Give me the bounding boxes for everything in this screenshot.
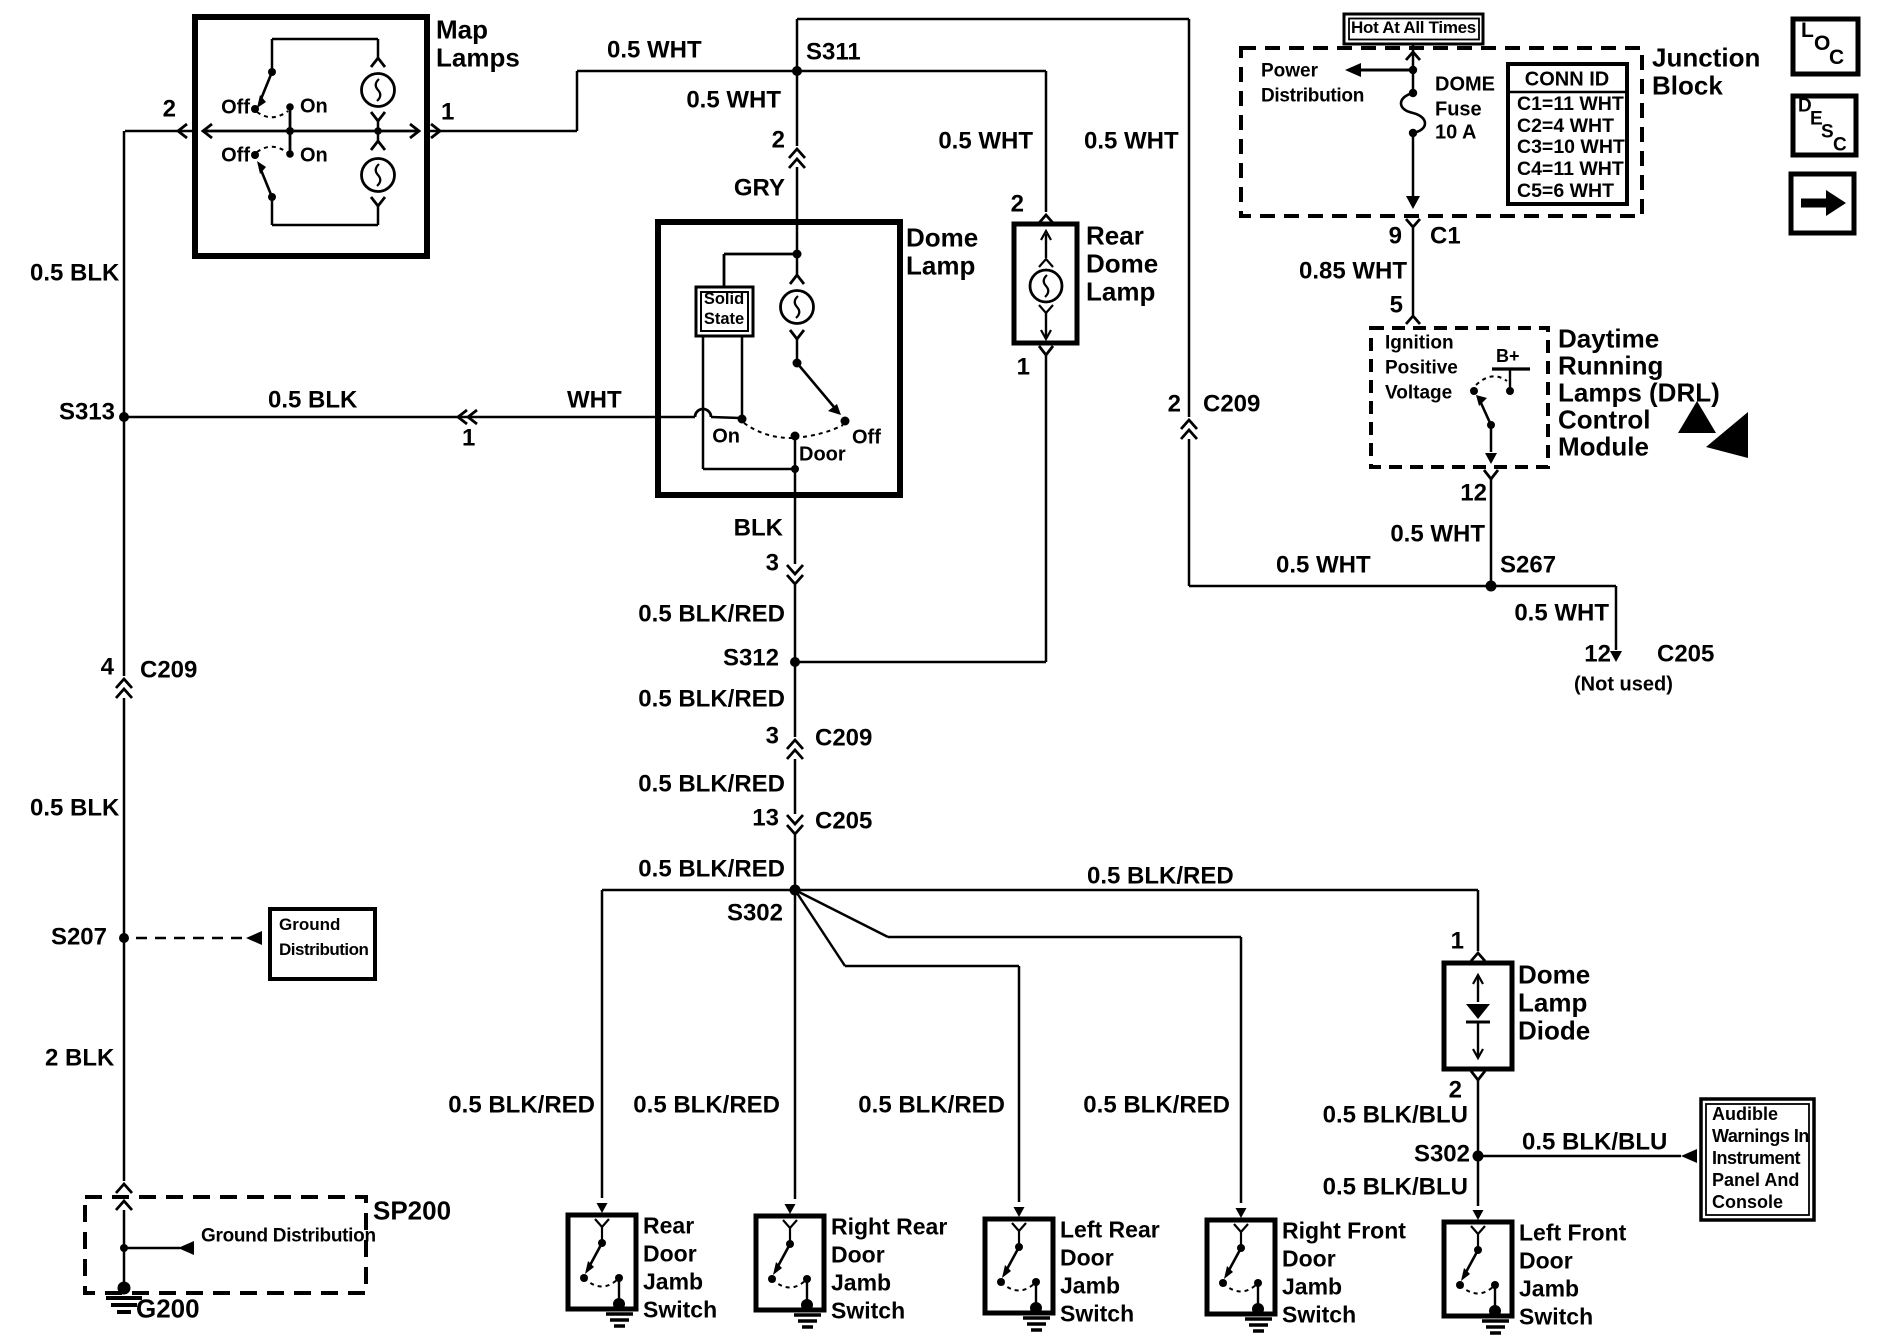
rear dome lamp box xyxy=(1014,224,1077,343)
Right Rear Door Jamb Switch left contact xyxy=(768,1275,776,1283)
svg-text:Door: Door xyxy=(831,1242,885,1268)
svg-text:Warnings In: Warnings In xyxy=(1712,1126,1809,1146)
svg-text:0.5 BLK: 0.5 BLK xyxy=(268,386,358,413)
svg-text:Junction: Junction xyxy=(1652,43,1760,73)
svg-text:0.5 BLK/RED: 0.5 BLK/RED xyxy=(858,1091,1005,1118)
svg-text:Instrument: Instrument xyxy=(1712,1148,1801,1168)
Left Rear Door Jamb Switch dashed throw arc xyxy=(1001,1282,1036,1291)
Right Front Door Jamb Switch left contact xyxy=(1219,1279,1227,1287)
connector pin 3 chevrons (down) xyxy=(787,565,803,574)
Left Rear Door Jamb Switch right contact xyxy=(1032,1278,1040,1286)
power distribution arrow xyxy=(1361,69,1413,72)
svg-text:Audible: Audible xyxy=(1712,1104,1778,1124)
svg-text:L: L xyxy=(1801,19,1814,42)
svg-text:(Not used): (Not used) xyxy=(1574,673,1673,695)
left-rear-door-jamb-switch-entry arrow xyxy=(1014,1207,1025,1217)
dome lamp internal bottom wire xyxy=(703,468,795,471)
solid state box xyxy=(696,287,753,336)
svg-text:On: On xyxy=(300,144,328,166)
Right Rear Door Jamb Switch switch pivot xyxy=(786,1240,794,1248)
wire S302 to audible warnings xyxy=(1478,1155,1681,1158)
Rear Door Jamb Switch right contact xyxy=(615,1274,623,1282)
dome lamp internal node xyxy=(793,250,802,259)
Left Front Door Jamb Switch box xyxy=(1444,1222,1512,1316)
ground distribution box xyxy=(270,909,375,979)
Left Front Door Jamb Switch dashed throw arc xyxy=(1460,1285,1495,1294)
svg-text:2: 2 xyxy=(163,95,176,122)
dome lamp bottom node xyxy=(791,465,799,473)
right-front-door-jamb-switch-entry arrow xyxy=(1236,1208,1247,1218)
svg-text:Hot At All Times: Hot At All Times xyxy=(1351,18,1476,37)
wire 0.5 BLK/RED (to S302) xyxy=(794,835,797,890)
svg-text:C5=6 WHT: C5=6 WHT xyxy=(1517,180,1614,202)
svg-text:C209: C209 xyxy=(1203,390,1260,417)
map lamps lower Off contact xyxy=(251,151,259,159)
svg-text:Right Front: Right Front xyxy=(1282,1218,1406,1244)
svg-text:Dome: Dome xyxy=(1518,960,1590,990)
svg-text:Lamps (DRL): Lamps (DRL) xyxy=(1558,378,1720,408)
svg-text:CONN ID: CONN ID xyxy=(1525,68,1609,90)
Right Rear Door Jamb Switch box xyxy=(756,1216,824,1310)
Right Rear Door Jamb Switch contact-to-ground wire xyxy=(806,1279,808,1304)
diode internal arrow down xyxy=(1477,1022,1479,1056)
svg-text:1: 1 xyxy=(1017,353,1030,380)
svg-text:Door: Door xyxy=(1060,1245,1114,1271)
svg-text:3: 3 xyxy=(766,722,779,749)
dome lamp bulb xyxy=(790,275,804,284)
Left Rear Door Jamb Switch ground symbol xyxy=(1030,1302,1042,1314)
rear dome lamp output wire xyxy=(1045,355,1048,662)
svg-text:S313: S313 xyxy=(59,398,115,425)
svg-text:13: 13 xyxy=(752,804,779,831)
Left Rear Door Jamb Switch box xyxy=(985,1219,1053,1313)
map lamps center post xyxy=(289,107,292,154)
svg-text:State: State xyxy=(704,310,744,328)
svg-text:DOME: DOME xyxy=(1435,73,1495,95)
SP200 internal wire xyxy=(123,1210,126,1248)
Rear Door Jamb Switch ground symbol xyxy=(613,1298,625,1310)
svg-text:Door: Door xyxy=(643,1241,697,1267)
wire S267 right to C205 xyxy=(1491,585,1616,588)
svg-text:Door: Door xyxy=(799,443,846,465)
diode internal arrow up xyxy=(1477,977,1479,1002)
DRL dashed arc xyxy=(1476,376,1507,385)
svg-text:Lamp: Lamp xyxy=(906,251,975,281)
svg-text:Ground: Ground xyxy=(279,915,340,934)
solid state left leg wire xyxy=(702,336,705,469)
svg-text:S311: S311 xyxy=(806,38,861,65)
diode terminal 1 xyxy=(1471,953,1485,961)
svg-text:0.5 BLK/BLU: 0.5 BLK/BLU xyxy=(1323,1101,1468,1128)
rear-door-jamb-switch-entry arrow xyxy=(597,1203,608,1213)
svg-text:Left Front: Left Front xyxy=(1519,1220,1627,1246)
dome lamp box xyxy=(658,222,900,495)
svg-text:Switch: Switch xyxy=(1519,1304,1593,1330)
svg-text:0.5 BLK/RED: 0.5 BLK/RED xyxy=(638,770,785,797)
svg-text:Control: Control xyxy=(1558,405,1650,435)
svg-text:C1=11 WHT: C1=11 WHT xyxy=(1517,93,1624,115)
svg-text:On: On xyxy=(300,95,328,117)
svg-text:12: 12 xyxy=(1460,479,1487,506)
right-rear-door-jamb-switch-entry arrow xyxy=(785,1204,796,1214)
svg-text:Module: Module xyxy=(1558,432,1649,462)
Rear Door Jamb Switch dashed throw arc xyxy=(584,1278,619,1287)
svg-text:B+: B+ xyxy=(1496,346,1520,366)
solid state right leg wire xyxy=(741,336,744,419)
Rear Door Jamb Switch left contact xyxy=(580,1274,588,1282)
junction block dashed box xyxy=(1241,48,1642,216)
svg-text:1: 1 xyxy=(462,424,475,451)
connector C1 pin 9 xyxy=(1406,219,1420,227)
svg-text:Power: Power xyxy=(1261,61,1319,82)
svg-text:S312: S312 xyxy=(723,644,779,671)
DOME fuse 10A xyxy=(1412,70,1415,93)
rear dome lamp internal arrow up xyxy=(1045,234,1047,258)
Left Rear Door Jamb Switch switch pivot xyxy=(1015,1243,1023,1251)
map lamps pin 1 wire xyxy=(427,130,577,133)
DRL switch arm xyxy=(1481,403,1491,425)
ground distribution dashed wire xyxy=(136,937,248,940)
node S302 xyxy=(790,885,801,896)
svg-text:0.5 BLK/RED: 0.5 BLK/RED xyxy=(448,1091,595,1118)
Right Front Door Jamb Switch box xyxy=(1207,1220,1275,1314)
svg-text:0.85 WHT: 0.85 WHT xyxy=(1299,257,1407,284)
svg-text:C3=10 WHT: C3=10 WHT xyxy=(1517,136,1625,158)
svg-text:Switch: Switch xyxy=(831,1298,905,1324)
svg-text:Ignition: Ignition xyxy=(1385,333,1454,354)
svg-text:Diode: Diode xyxy=(1518,1016,1590,1046)
Right Rear Door Jamb Switch internal connector chevron xyxy=(783,1220,797,1228)
svg-text:0.5 BLK/RED: 0.5 BLK/RED xyxy=(1083,1091,1230,1118)
Right Rear Door Jamb Switch ground symbol xyxy=(801,1299,813,1311)
dome lamp Door contact xyxy=(791,432,800,441)
svg-text:S302: S302 xyxy=(1414,1140,1470,1167)
svg-text:S: S xyxy=(1821,122,1834,143)
wire WHT from dome switch xyxy=(658,416,695,419)
map lamps upper switch arm xyxy=(261,72,272,99)
wire 0.5 BLK/RED (to S312) xyxy=(794,585,797,662)
fuse output wire xyxy=(1412,133,1415,197)
DESC icon box xyxy=(1793,96,1856,155)
svg-text:Off: Off xyxy=(221,144,250,166)
svg-text:Door: Door xyxy=(1519,1248,1573,1274)
svg-text:Right Rear: Right Rear xyxy=(831,1214,947,1240)
left rail wire lower (2 BLK) xyxy=(123,938,126,1181)
dome lamp Off contact xyxy=(841,417,850,426)
dome lamp diode box xyxy=(1444,963,1512,1069)
map lamps node (lamp junction) xyxy=(374,127,382,135)
wire S311 up and top run xyxy=(796,19,799,71)
SP200 ground distribution arrow xyxy=(124,1247,180,1250)
wire 0.5 BLK/RED (S312 down) xyxy=(794,662,797,737)
svg-text:2: 2 xyxy=(1011,190,1024,217)
map lamp bulb 2 xyxy=(377,131,380,141)
diode symbol xyxy=(1466,1004,1490,1019)
connector C209 pin 4 (left rail) xyxy=(116,679,132,688)
dome lamp switch pivot xyxy=(793,359,802,368)
svg-text:Dome: Dome xyxy=(1086,249,1158,279)
Rear Door Jamb Switch switch arm xyxy=(589,1243,602,1267)
Right Front Door Jamb Switch switch pivot xyxy=(1237,1244,1245,1252)
dome lamp switch arm xyxy=(797,363,834,407)
DRL exit chevron pin 12 xyxy=(1484,470,1498,479)
svg-text:Panel And: Panel And xyxy=(1712,1170,1799,1190)
splice SP200 dashed box xyxy=(85,1197,366,1293)
junction block entry chevron xyxy=(1406,52,1420,60)
svg-text:Switch: Switch xyxy=(643,1297,717,1323)
svg-text:0.5 WHT: 0.5 WHT xyxy=(607,36,702,63)
svg-text:0.5 BLK: 0.5 BLK xyxy=(30,259,120,286)
Left Rear Door Jamb Switch switch arm xyxy=(1006,1247,1019,1271)
svg-text:0.5 BLK/BLU: 0.5 BLK/BLU xyxy=(1323,1173,1468,1200)
Left Front Door Jamb Switch left contact xyxy=(1456,1281,1464,1289)
wire S312 to rear dome lamp xyxy=(795,661,1046,664)
svg-text:O: O xyxy=(1814,32,1830,55)
svg-text:Console: Console xyxy=(1712,1192,1783,1212)
svg-text:Voltage: Voltage xyxy=(1385,383,1452,404)
svg-text:S207: S207 xyxy=(51,923,107,950)
node S312 xyxy=(790,657,800,667)
svg-text:2: 2 xyxy=(1168,390,1181,417)
rear dome lamp bulb xyxy=(1039,259,1053,267)
Right Front Door Jamb Switch switch arm xyxy=(1228,1248,1241,1272)
Left Front Door Jamb Switch ground symbol xyxy=(1489,1305,1501,1317)
svg-text:Jamb: Jamb xyxy=(643,1269,703,1295)
SP200 down wire xyxy=(123,1248,126,1288)
svg-text:Off: Off xyxy=(221,96,250,118)
svg-text:C: C xyxy=(1833,135,1847,156)
svg-text:C205: C205 xyxy=(1657,640,1714,667)
wire S311 right to rear dome lamp xyxy=(797,70,1046,73)
svg-text:0.5 BLK/RED: 0.5 BLK/RED xyxy=(638,600,785,627)
wire S302 diagonal 2 xyxy=(795,890,845,966)
wire 0.5 BLK/RED (C209-C205) xyxy=(794,759,797,814)
rear dome lamp internal arrow down xyxy=(1045,313,1047,337)
svg-text:C205: C205 xyxy=(815,807,872,834)
svg-text:Lamp: Lamp xyxy=(1086,277,1155,307)
svg-text:0.5 WHT: 0.5 WHT xyxy=(938,127,1033,154)
svg-text:Jamb: Jamb xyxy=(1282,1274,1342,1300)
svg-text:GRY: GRY xyxy=(734,174,785,201)
Right Rear Door Jamb Switch right contact xyxy=(803,1275,811,1283)
svg-text:Switch: Switch xyxy=(1060,1301,1134,1327)
wire S302 right branch 0.5 BLK/RED xyxy=(795,889,1478,892)
DRL output wire xyxy=(1490,425,1493,452)
LOC icon box xyxy=(1793,19,1858,74)
dome lamp output wire xyxy=(794,469,797,495)
ESD symbol xyxy=(1678,401,1716,433)
wire S302 left branch xyxy=(602,889,795,892)
svg-text:C1: C1 xyxy=(1430,222,1461,249)
rear dome lamp terminal 2 xyxy=(1039,215,1053,223)
wire S302 to left front switch (0.5 BLK/BLU) xyxy=(1477,1156,1480,1206)
DRL module dashed box xyxy=(1371,328,1548,467)
dome lamp wire to solid state xyxy=(724,253,797,256)
svg-text:Solid: Solid xyxy=(704,290,744,308)
wire 0.5 BLK / WHT to S313 xyxy=(124,416,658,419)
wire diode to S302 (0.5 BLK/BLU) xyxy=(1477,1080,1480,1156)
Right Front Door Jamb Switch right contact xyxy=(1254,1279,1262,1287)
svg-text:Door: Door xyxy=(1282,1246,1336,1272)
svg-text:0.5 WHT: 0.5 WHT xyxy=(1276,551,1371,578)
svg-text:C: C xyxy=(1829,46,1844,69)
Rear Door Jamb Switch internal connector chevron xyxy=(595,1219,609,1227)
svg-text:12: 12 xyxy=(1584,640,1611,667)
svg-text:Ground Distribution: Ground Distribution xyxy=(201,1226,376,1247)
node fuse top xyxy=(1409,66,1417,74)
svg-text:C209: C209 xyxy=(140,656,197,683)
svg-text:C2=4 WHT: C2=4 WHT xyxy=(1517,115,1614,137)
dome lamp feed wire xyxy=(796,222,799,254)
svg-text:0.5 BLK/RED: 0.5 BLK/RED xyxy=(638,855,785,882)
Right Front Door Jamb Switch contact-to-ground wire xyxy=(1257,1283,1259,1308)
svg-text:0.5 BLK: 0.5 BLK xyxy=(30,794,120,821)
node S267 xyxy=(1486,581,1497,592)
svg-text:Distribution: Distribution xyxy=(1261,86,1364,107)
svg-text:Lamp: Lamp xyxy=(1518,988,1587,1018)
svg-text:Fuse: Fuse xyxy=(1435,98,1482,120)
splice SP200 entry chevrons xyxy=(116,1184,132,1193)
svg-text:S267: S267 xyxy=(1500,551,1556,578)
svg-text:5: 5 xyxy=(1390,291,1403,318)
svg-text:Off: Off xyxy=(852,426,881,448)
svg-text:WHT: WHT xyxy=(567,386,622,413)
svg-text:Block: Block xyxy=(1652,71,1723,101)
connector pin 2 (dome lamp) xyxy=(789,149,805,158)
left rail wire middle xyxy=(123,698,126,938)
Rear Door Jamb Switch box xyxy=(568,1215,636,1309)
svg-text:3: 3 xyxy=(766,549,779,576)
svg-text:0.5 WHT: 0.5 WHT xyxy=(1084,127,1179,154)
DRL switch pivot xyxy=(1470,387,1478,395)
svg-text:9: 9 xyxy=(1389,222,1402,249)
Right Front Door Jamb Switch ground symbol xyxy=(1252,1303,1264,1315)
wire S311 down (GRY) xyxy=(796,71,799,146)
node S207 xyxy=(119,933,129,943)
svg-text:0.5 WHT: 0.5 WHT xyxy=(1514,599,1609,626)
svg-text:0.5 WHT: 0.5 WHT xyxy=(686,86,781,113)
svg-text:C4=11 WHT: C4=11 WHT xyxy=(1517,158,1624,180)
node S302 (lower) xyxy=(1473,1151,1484,1162)
svg-text:SP200: SP200 xyxy=(373,1196,451,1226)
map lamps upper switch contact xyxy=(268,68,276,76)
forward arrow icon box xyxy=(1791,174,1854,233)
left-front-door-jamb-switch-entry arrow xyxy=(1473,1210,1484,1220)
svg-text:Rear: Rear xyxy=(1086,221,1144,251)
wire BLK (dome out) xyxy=(794,495,797,564)
node S311 xyxy=(792,66,802,76)
svg-text:BLK: BLK xyxy=(734,514,784,541)
map lamps bottom rail wire xyxy=(272,224,378,227)
svg-text:0.5 BLK/RED: 0.5 BLK/RED xyxy=(638,685,785,712)
Right Rear Door Jamb Switch dashed throw arc xyxy=(772,1279,807,1288)
Left Front Door Jamb Switch switch arm xyxy=(1465,1250,1478,1274)
map lamps top rail wire xyxy=(272,38,378,41)
map lamps lower switch arm xyxy=(261,170,272,197)
svg-text:Map: Map xyxy=(436,15,488,45)
svg-text:Running: Running xyxy=(1558,351,1663,381)
svg-text:2: 2 xyxy=(1449,1076,1462,1103)
svg-text:Jamb: Jamb xyxy=(1060,1273,1120,1299)
svg-text:0.5 BLK/RED: 0.5 BLK/RED xyxy=(633,1091,780,1118)
svg-text:Positive: Positive xyxy=(1385,358,1458,379)
dome lamp door wire xyxy=(794,436,797,469)
svg-text:0.5 BLK/BLU: 0.5 BLK/BLU xyxy=(1522,1128,1667,1155)
Right Rear Door Jamb Switch switch arm xyxy=(777,1244,790,1268)
svg-text:Switch: Switch xyxy=(1282,1302,1356,1328)
Left Front Door Jamb Switch contact-to-ground wire xyxy=(1494,1285,1496,1310)
Left Front Door Jamb Switch switch pivot xyxy=(1474,1246,1482,1254)
Left Rear Door Jamb Switch left contact xyxy=(997,1278,1005,1286)
map lamps upper dashed arc xyxy=(257,111,288,117)
map lamps upper Off contact xyxy=(251,105,259,113)
wire S302 diagonal 1 xyxy=(795,890,888,937)
svg-text:Distribution: Distribution xyxy=(279,940,368,959)
Rear Door Jamb Switch contact-to-ground wire xyxy=(618,1278,620,1303)
connector pin 5 (DRL) xyxy=(1406,316,1420,324)
svg-text:Jamb: Jamb xyxy=(1519,1276,1579,1302)
hot at all times box xyxy=(1344,14,1483,44)
svg-text:4: 4 xyxy=(101,653,115,680)
Left Rear Door Jamb Switch internal connector chevron xyxy=(1012,1223,1026,1231)
Left Front Door Jamb Switch internal connector chevron xyxy=(1471,1226,1485,1234)
svg-text:0.5 BLK/RED: 0.5 BLK/RED xyxy=(1087,862,1234,889)
map lamps pin 2 wire xyxy=(125,130,195,133)
map lamps lower dashed arc xyxy=(257,147,288,153)
connector C205 pin 13 xyxy=(787,815,803,824)
svg-text:Lamps: Lamps xyxy=(436,43,520,73)
svg-text:Rear: Rear xyxy=(643,1213,694,1239)
audible warnings box xyxy=(1701,1099,1814,1220)
dome lamp dashed arc xyxy=(744,423,795,438)
Left Rear Door Jamb Switch contact-to-ground wire xyxy=(1035,1282,1037,1307)
svg-text:Jamb: Jamb xyxy=(831,1270,891,1296)
map lamps lower switch contact xyxy=(268,193,276,201)
left rail wire upper xyxy=(123,131,126,676)
svg-text:0.5 WHT: 0.5 WHT xyxy=(1390,520,1485,547)
svg-text:S302: S302 xyxy=(727,899,783,926)
rear dome lamp terminal 1 xyxy=(1039,346,1053,355)
dome lamp On contact xyxy=(738,415,747,424)
wire S302 center drop xyxy=(794,890,797,1199)
svg-text:2: 2 xyxy=(772,126,785,153)
diode terminal 2 xyxy=(1471,1071,1485,1080)
wire S267 left to C209 xyxy=(1189,585,1491,588)
connector C209 pin 3 xyxy=(787,740,803,749)
svg-text:Dome: Dome xyxy=(906,223,978,253)
Rear Door Jamb Switch switch pivot xyxy=(598,1239,606,1247)
map lamp bulb 1 xyxy=(371,58,385,67)
map lamps box xyxy=(195,17,427,256)
CONN ID table box xyxy=(1508,64,1627,204)
SP200 node xyxy=(120,1244,128,1252)
connector C209 pin 2 (right vertical) xyxy=(1181,420,1197,429)
svg-text:2 BLK: 2 BLK xyxy=(45,1044,115,1071)
svg-text:On: On xyxy=(712,425,740,447)
Right Front Door Jamb Switch internal connector chevron xyxy=(1234,1224,1248,1232)
map lamps mid bus wire xyxy=(203,130,419,133)
svg-text:Left Rear: Left Rear xyxy=(1060,1217,1160,1243)
svg-text:1: 1 xyxy=(441,98,454,125)
svg-text:G200: G200 xyxy=(136,1294,200,1324)
ground G200 xyxy=(118,1282,131,1295)
wire right vertical 0.5 WHT xyxy=(1188,19,1191,417)
svg-text:10 A: 10 A xyxy=(1435,121,1477,143)
svg-text:C209: C209 xyxy=(815,724,872,751)
Left Front Door Jamb Switch right contact xyxy=(1491,1281,1499,1289)
svg-text:Daytime: Daytime xyxy=(1558,324,1659,354)
svg-text:1: 1 xyxy=(1451,927,1464,954)
